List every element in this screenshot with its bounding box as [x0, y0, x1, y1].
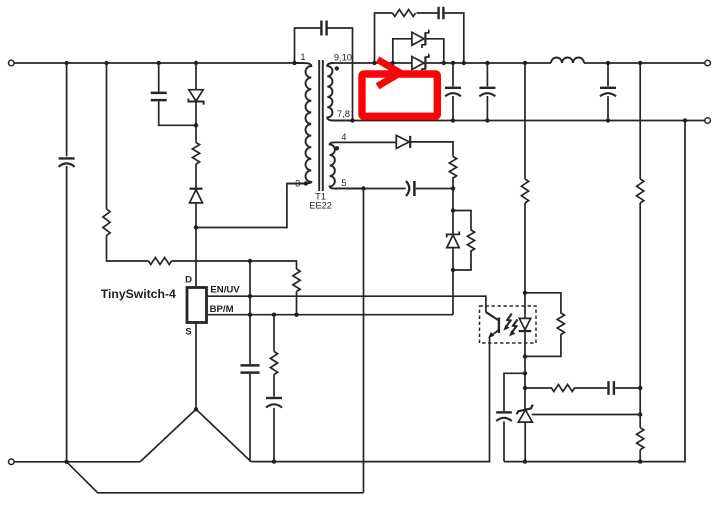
- wire: blocking diode anode to drain node: [195, 203, 197, 228]
- transformer secondary winding pins 9,10-7,8: [327, 63, 352, 121]
- node: bus / sense resistor: [104, 61, 108, 65]
- resistor line sense horizontal: [149, 258, 172, 265]
- node: secondary rail / output cap 1: [451, 61, 455, 65]
- wire: secondary ground run: [504, 461, 640, 463]
- diode clamp blocking: [190, 189, 203, 203]
- polarity dot secondary: [335, 66, 339, 70]
- wire: clamp capacitor lower lead to clamp node: [159, 101, 196, 125]
- wire: secondary return rail: [353, 120, 705, 122]
- capacitor input filter (polarized): [59, 158, 75, 166]
- wire: parallel schottky loop: [393, 39, 444, 63]
- capacitor output C3 (polarized): [600, 88, 616, 97]
- node: return rail / pin 7,8: [350, 118, 354, 122]
- wire: RC snubber loop over rectifier: [375, 13, 464, 63]
- output terminal negative: [705, 118, 711, 124]
- inductor output filter L: [551, 58, 584, 63]
- wire: RC branch middle: [273, 375, 275, 397]
- node: secondary rail / parallel diode left: [391, 61, 395, 65]
- op IC U1 TinySwitch-4 body: [187, 288, 207, 323]
- node: secondary ground / TL431: [523, 459, 527, 463]
- resistor feedback upper: [521, 179, 528, 203]
- wire: BP/M pin line: [207, 314, 454, 316]
- node: sawtooth apex (source): [194, 407, 198, 411]
- output terminal positive: [705, 60, 711, 66]
- wire: drain node to IC drain pin: [195, 228, 197, 288]
- node: secondary rail / parallel diode right: [442, 61, 446, 65]
- node: secondary rail / snubber right: [462, 61, 466, 65]
- wire: input filter cap branch lower: [66, 166, 68, 462]
- wire: secondary top rail inductor to output terminal: [584, 62, 705, 64]
- schottky diode output rectifier D2 (parallel): [412, 30, 429, 48]
- highlight arrow (red): [378, 60, 401, 87]
- wire: BP/M cap branch lower: [249, 374, 251, 462]
- capacitor bias (polarized, horizontal): [406, 181, 414, 196]
- resistor divider upper: [637, 179, 644, 203]
- capacitor compensation: [609, 381, 614, 395]
- node: bias cap / resistor: [451, 186, 455, 190]
- capacitor Y1 safety: [321, 21, 326, 36]
- wire: output cap 2 branch: [486, 63, 488, 121]
- wire: IC source pin to sawtooth apex: [195, 323, 197, 410]
- optocoupler U2 dashed body: [480, 306, 537, 343]
- node: return rail / output cap 3: [606, 118, 610, 122]
- wire: opto cathode to TL431 cathode node: [524, 357, 526, 389]
- node: BP/M line / sense resistor: [294, 313, 298, 317]
- schottky diode output rectifier D1 (in line): [412, 54, 429, 72]
- wire: bias return bottom run: [67, 462, 364, 493]
- resistor clamp: [192, 143, 199, 165]
- wire: clamp zener to clamp node: [195, 102, 197, 126]
- node: return rail / right drop: [683, 118, 687, 122]
- transformer T1 primary winding pins 1-3: [287, 63, 311, 184]
- node: EN zener bottom: [451, 268, 455, 272]
- node: TL431 cap branch: [523, 371, 527, 375]
- highlight box (red): [362, 74, 437, 116]
- wire: bias diode to bias resistor: [410, 142, 453, 157]
- resistor line sense upper: [103, 209, 110, 236]
- wire: clamp resistor to blocking diode: [195, 164, 197, 189]
- wire: divider middle: [639, 203, 641, 428]
- capacitor output C1 (polarized): [445, 88, 461, 97]
- wire: Y-capacitor loop from pin 1: [295, 28, 321, 63]
- node: drain junction: [194, 225, 198, 229]
- node: bottom-left rail junction: [64, 460, 68, 464]
- capacitor BP/M RC branch (polarized): [266, 398, 282, 408]
- diode bias rectifier: [396, 135, 410, 148]
- wire: clamp capacitor upper lead: [158, 63, 160, 92]
- node: clamp cap-zener junction: [194, 123, 198, 127]
- wire: bias node to zener node: [452, 189, 454, 211]
- svg-text:1: 1: [300, 52, 305, 62]
- wire: feedback resistor to opto anode node: [524, 203, 526, 293]
- wire: bias return vertical from pin 5 node: [363, 189, 365, 493]
- wire: bias winding pin 4 to bias diode: [335, 141, 397, 143]
- capacitor across TL431 (polarized): [496, 412, 512, 421]
- node: secondary rail / feedback string: [523, 61, 527, 65]
- capacitor BP/M bypass: [241, 365, 260, 372]
- wire: input filter cap branch upper: [66, 63, 68, 156]
- svg-text:5: 5: [341, 178, 346, 188]
- capacitor output snubber: [439, 7, 444, 19]
- wire: comp cap to divider node: [615, 387, 640, 389]
- svg-text:BP/M: BP/M: [210, 304, 234, 315]
- node: bus / transformer pin 1: [292, 61, 296, 65]
- wire: bias cap right lead: [416, 188, 453, 190]
- light arrows inside optocoupler: [503, 314, 517, 337]
- node: divider / comp: [638, 386, 642, 390]
- wire: bias cap left lead: [364, 188, 406, 190]
- svg-text:9,10: 9,10: [334, 53, 352, 63]
- svg-text:D: D: [185, 275, 192, 286]
- polarity dot bias: [335, 146, 339, 150]
- transformer core: [319, 60, 323, 191]
- wire: source sawtooth right diagonal: [196, 409, 251, 461]
- transformer bias winding pins 4-5: [330, 142, 364, 188]
- node: return rail / output cap 2: [485, 118, 489, 122]
- svg-text:TinySwitch-4: TinySwitch-4: [101, 287, 176, 301]
- wire: clamp node to clamp resistor: [195, 125, 197, 142]
- resistor parallel with EN zener (right branch): [453, 211, 475, 271]
- wire: TL431 cap lower lead: [503, 421, 505, 461]
- wire: bottom-left rail from input terminal: [14, 461, 140, 463]
- wire: BP/M RC branch upper: [273, 315, 275, 352]
- wire: output cap 1 branch: [452, 63, 454, 121]
- shunt regulator TL431: [517, 388, 533, 462]
- node: bus / input cap: [64, 61, 68, 65]
- wire: sense chain lower segment and horizontal run: [107, 236, 297, 270]
- resistor sense-to-BP/M: [293, 269, 300, 292]
- wire: RC branch lower: [273, 408, 275, 462]
- optocoupler LED: [519, 293, 532, 357]
- wire: secondary top rail rectifier to inductor: [426, 62, 551, 64]
- svg-text:3: 3: [295, 178, 300, 188]
- node: bus / clamp zener: [194, 61, 198, 65]
- resistor bias: [449, 157, 456, 179]
- node: opto LED cathode: [523, 354, 527, 358]
- node: secondary ground / divider: [638, 459, 642, 463]
- node: pin 5 / bias return: [361, 186, 365, 190]
- node: BP/M line / cap branch: [248, 313, 252, 317]
- node: secondary rail / snubber left: [372, 61, 376, 65]
- wire: clamp zener upper lead: [195, 63, 197, 90]
- wire: output cap 3 branch after inductor: [607, 63, 609, 121]
- svg-text:7,8: 7,8: [337, 109, 350, 119]
- wire: divider lower lead: [639, 450, 641, 462]
- resistor divider lower: [637, 428, 644, 450]
- wire: sense chain resistor to BP/M line: [296, 292, 298, 315]
- node: divider / ref: [638, 412, 642, 416]
- svg-text:EN/UV: EN/UV: [210, 284, 240, 295]
- node: TL431 cathode / comp: [523, 386, 527, 390]
- optocoupler phototransistor: [486, 312, 499, 337]
- node: return rail / output cap 1: [451, 118, 455, 122]
- wire: primary top rail (DC bus): [14, 62, 294, 64]
- node: sense line branch: [248, 259, 252, 263]
- wire: feedback string from output rail: [524, 63, 526, 179]
- wire: divider string from output rail: [639, 63, 641, 179]
- node: EN zener top: [451, 208, 455, 212]
- wire: primary ground segment (source reference): [251, 337, 490, 462]
- zener diode clamp VR: [188, 90, 203, 105]
- svg-text:EE22: EE22: [309, 201, 332, 211]
- wire: zener node to EN zener: [452, 211, 454, 235]
- resistor output snubber: [393, 10, 416, 17]
- wire: TL431 ref to divider node: [532, 414, 641, 416]
- node: primary ground / RC branch: [272, 459, 276, 463]
- wire: drain node to transformer pin 3: [196, 184, 303, 228]
- node: secondary rail / output cap 3: [606, 61, 610, 65]
- node: bus / clamp cap: [157, 61, 161, 65]
- wire: source sawtooth left diagonal: [140, 409, 196, 462]
- svg-text:4: 4: [341, 132, 346, 142]
- node: EN/UV line branch: [248, 294, 252, 298]
- wire: bias resistor to bias node: [452, 177, 454, 189]
- resistor compensation: [525, 385, 607, 392]
- wire: secondary top rail from winding 9,10 to rectifier: [331, 62, 412, 64]
- capacitor output C2 (polarized): [479, 88, 495, 97]
- wire: Y-capacitor to secondary return: [326, 28, 352, 121]
- wire: TL431 left cap branch: [504, 373, 525, 411]
- wire: EN zener anode to lower node: [452, 248, 454, 270]
- node: transformer pin 3: [304, 181, 308, 185]
- node: opto LED anode: [523, 291, 527, 295]
- resistor across opto LED: [525, 293, 565, 357]
- wire: line sense resistor branch from bus: [106, 63, 108, 209]
- capacitor clamp: [151, 93, 167, 100]
- wire: EN/UV pin line to optocoupler collector: [207, 296, 499, 320]
- svg-text:S: S: [185, 326, 192, 337]
- input terminal top-left: [9, 60, 15, 66]
- zener diode EN/UV sense: [447, 231, 460, 247]
- node: secondary rail / output cap 2: [485, 61, 489, 65]
- wire: far right return drop: [640, 121, 685, 462]
- resistor BP/M RC branch: [270, 352, 277, 375]
- wire: EN network to BP/M rail corner: [452, 270, 454, 315]
- node: BP/M line / RC branch: [272, 313, 276, 317]
- wire: BP/M cap branch upper: [249, 261, 251, 364]
- node: secondary rail / divider string: [638, 61, 642, 65]
- input terminal bottom-left: [9, 459, 15, 465]
